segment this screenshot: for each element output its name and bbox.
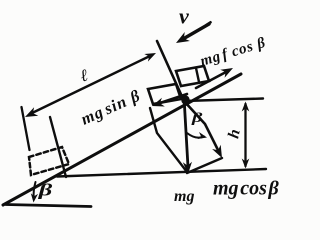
svg-text:β: β [191, 109, 203, 125]
arrowhead mg sin beta [152, 98, 165, 107]
arrowhead apex beta arc [31, 193, 38, 202]
extension line through dashed block [50, 117, 66, 177]
svg-text:ℓ: ℓ [78, 65, 90, 85]
force line mg [184, 97, 188, 167]
dashed block (initial position) [29, 147, 69, 175]
velocity arrow shaft [183, 24, 209, 39]
force line mg sin beta [160, 94, 187, 103]
h dimension line [244, 104, 246, 166]
force line mg cos beta [184, 101, 219, 152]
svg-text:mg: mg [174, 188, 194, 205]
arrowhead mg cos beta [212, 145, 222, 158]
angle arc beta at block [187, 133, 204, 138]
svg-text:mg f cos β: mg f cos β [198, 35, 267, 70]
arrowhead block beta arc [197, 132, 207, 139]
solid block upper rectangle [176, 66, 209, 86]
parallelogram side from mg-cos tip to mg tip [187, 158, 222, 173]
parallelogram side from mg-sin tip to mg tip [150, 108, 187, 172]
svg-text:h: h [225, 128, 243, 140]
extension line above solid block [157, 41, 184, 101]
junction ink blob at force origin O [181, 95, 189, 104]
velocity arrow tail hook [207, 22, 211, 25]
arrowhead h top [242, 102, 250, 112]
lower horizontal reference line for h [57, 169, 266, 177]
svg-text:v: v [179, 4, 189, 29]
arrowhead l right [144, 53, 156, 62]
solid block upper rectangle inner line [196, 68, 199, 82]
force line mgf cos beta [196, 72, 226, 88]
arrowhead v [176, 32, 190, 43]
incline surface [3, 74, 241, 205]
arrowhead mg [183, 162, 192, 174]
svg-text:mg cos β: mg cos β [213, 178, 280, 200]
dimension line l [30, 55, 152, 114]
stray extension tick at left l-arrow [22, 107, 30, 150]
ground base line [6, 205, 91, 207]
angle arc beta at apex [34, 182, 36, 198]
arrowhead l left [25, 107, 38, 117]
svg-text:β: β [38, 180, 53, 199]
arrowhead mgf cos beta [220, 68, 233, 78]
solid block lower rectangle [148, 84, 181, 104]
svg-text:mg sin β: mg sin β [78, 86, 143, 129]
arrowhead h bottom [242, 159, 250, 169]
upper horizontal reference line for h [184, 99, 263, 102]
